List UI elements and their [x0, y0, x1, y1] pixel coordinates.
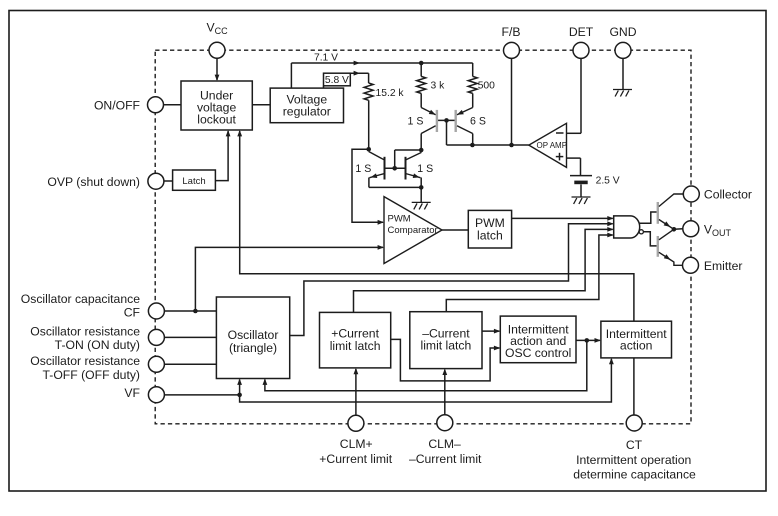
svg-text:+Current limit: +Current limit — [319, 452, 392, 466]
pin Emitter — [683, 257, 699, 273]
wire Q3 emitter down — [368, 178, 370, 188]
wire mirror node to PWM comparator input 1 — [352, 149, 383, 222]
svg-text:OSC control: OSC control — [505, 346, 571, 360]
wire Q1 collector down to NPN mirror — [420, 134, 422, 153]
wire 15.2k bottom down — [368, 100, 370, 151]
node 15.2k / comparator tap — [366, 147, 371, 152]
wire emitter rail to ground — [420, 187, 422, 202]
svg-text:ON/OFF: ON/OFF — [94, 98, 140, 112]
wire Latch to UVLO bottom — [215, 131, 228, 181]
arrow Q4 emitter — [413, 173, 420, 178]
arrow NAND input 3 — [607, 227, 613, 232]
wire +Current limit latch to NAND input 3 — [354, 229, 613, 312]
wire VOUT node to pin — [674, 228, 683, 231]
pin CLM+ — [348, 415, 364, 431]
svg-text:CLM+: CLM+ — [340, 437, 373, 451]
arrow comparator input 2 — [378, 245, 384, 250]
svg-text:T-ON (ON duty): T-ON (ON duty) — [55, 338, 140, 352]
node F/B / rail — [509, 143, 514, 148]
wire NPN base rail — [385, 167, 406, 169]
wire 5.8V to resistor 15.2k top — [368, 73, 370, 83]
svg-text:1 S: 1 S — [355, 163, 371, 175]
arrow Q6 emitter — [664, 254, 671, 259]
arrow Vcc into UVLO — [215, 75, 220, 81]
arrow Q1 emitter — [429, 110, 436, 115]
wire VF node to Intermittent action bottom — [240, 359, 612, 402]
svg-text:7.1 V: 7.1 V — [314, 53, 338, 64]
wire UVLO down across to CT pin — [240, 131, 634, 415]
NAND gate U2 — [614, 216, 640, 238]
transistor Q2 (6 S PNP) — [456, 108, 473, 134]
wire NPN mirror diode connection — [395, 149, 422, 151]
resistor 15.2k — [364, 83, 373, 100]
op-amp PWM Comparator — [384, 197, 442, 264]
node emitter rail / ground — [419, 185, 424, 190]
pin T-OFF — [148, 356, 164, 372]
transistor Q1 (1 S PNP) — [421, 108, 437, 134]
svg-text:VF: VF — [124, 386, 140, 400]
arrow into Intermittent/OSC 1 — [494, 329, 500, 334]
svg-text:GND: GND — [609, 25, 636, 39]
wire VF pin — [164, 394, 239, 396]
ground below 2.5V reference — [572, 197, 591, 204]
wire +Current limit latch to Intermittent/OSC block — [391, 339, 500, 381]
wire Q2 collector down to rail — [472, 134, 474, 146]
block Oscillator (triangle) — [216, 297, 289, 379]
svg-text:500: 500 — [478, 81, 495, 92]
wire 2.5V reference to ground — [580, 184, 582, 197]
wire F/B pin down to rail — [511, 59, 513, 146]
node 7.1V / 3k junction — [419, 61, 424, 66]
transistor Q6 (output lower) — [658, 229, 683, 265]
svg-text:determine capacitance: determine capacitance — [573, 468, 696, 482]
wire Voltage regulator top to 5.8V label — [323, 86, 325, 88]
arrow CLM- into latch — [442, 369, 447, 375]
svg-text:–Current limit: –Current limit — [409, 452, 482, 466]
wire T-OFF pin to oscillator — [164, 363, 216, 365]
svg-text:limit latch: limit latch — [421, 339, 472, 353]
wire CLM+ pin up to latch — [355, 369, 357, 415]
svg-text:Latch: Latch — [182, 176, 205, 187]
svg-text:Oscillator resistance: Oscillator resistance — [30, 354, 140, 368]
svg-text:1 S: 1 S — [417, 163, 433, 175]
wire CF node to PWM comparator input 2 — [195, 247, 383, 311]
pin F/B — [504, 42, 520, 58]
arrow into oscillator bottom 2 — [263, 379, 268, 385]
wire PWM comparator output to PWM latch — [442, 229, 468, 231]
wire Q1 base to Q2 base — [438, 119, 455, 121]
block Under voltage lockout — [181, 81, 252, 130]
svg-text:Intermittent operation: Intermittent operation — [576, 453, 691, 467]
wire OVP pin to Latch — [164, 180, 173, 182]
transistor Q3 (1 S NPN) — [369, 152, 385, 180]
svg-text:Oscillator resistance: Oscillator resistance — [30, 324, 140, 338]
node Q2 collector / rail — [470, 143, 475, 148]
pin GND — [615, 42, 631, 58]
arrow Latch into UVLO — [226, 130, 231, 136]
svg-text:Oscillator: Oscillator — [228, 328, 279, 342]
svg-text:DET: DET — [569, 25, 594, 39]
block -Current limit latch — [410, 312, 482, 369]
wire VF node up to oscillator — [239, 380, 241, 395]
arrow Q2 emitter — [457, 110, 464, 115]
svg-text:OP AMP: OP AMP — [537, 141, 568, 150]
wire ON/OFF pin to UVLO — [164, 104, 182, 106]
wire -Current limit latch to NAND input 4 — [446, 235, 612, 312]
pin CT — [626, 415, 642, 431]
svg-text:VCC: VCC — [207, 20, 229, 36]
svg-text:Oscillator capacitance: Oscillator capacitance — [21, 292, 140, 306]
block PWM latch — [468, 210, 511, 248]
ground GND pin — [613, 90, 632, 97]
block Latch — [173, 170, 216, 190]
svg-text:Collector: Collector — [704, 187, 752, 201]
node VF line — [237, 393, 242, 398]
node intermittent junction — [585, 338, 590, 343]
svg-text:CLM–: CLM– — [428, 437, 461, 451]
svg-text:3 k: 3 k — [431, 81, 446, 92]
pin ON/OFF — [148, 97, 164, 113]
arrow on 5.8V rail — [354, 71, 360, 76]
transistor Q5 (output upper) — [658, 194, 684, 229]
svg-text:CF: CF — [124, 306, 140, 320]
svg-text:6 S: 6 S — [470, 115, 486, 127]
node CF line — [193, 309, 198, 314]
block Intermittent action and OSC control — [500, 316, 576, 363]
block +Current limit latch — [320, 312, 391, 368]
pin Collector — [683, 186, 699, 202]
arrow on 7.1V rail — [354, 61, 360, 66]
arrow comparator input 1 — [378, 220, 384, 225]
svg-text:action: action — [620, 339, 653, 353]
wire 7.1V to resistor 500 top — [472, 63, 474, 76]
arrow NAND input 1 — [607, 216, 613, 221]
pin T-ON — [148, 329, 164, 345]
wire NAND true output to Q5 base — [639, 212, 656, 223]
wire Voltage regulator top to 7.1V rail — [290, 63, 292, 88]
wire PWM latch to NAND input 1 — [512, 217, 613, 219]
wire 7.1V to resistor 3k top — [420, 63, 422, 76]
arrow into Intermittent action — [595, 338, 601, 343]
svg-text:(triangle): (triangle) — [229, 341, 277, 355]
ground below current mirror — [412, 202, 431, 209]
svg-text:2.5 V: 2.5 V — [596, 175, 620, 186]
wire OSC control node to oscillator input — [265, 340, 587, 390]
wire opamp output rail — [447, 144, 529, 146]
op-amp U1 OP AMP — [529, 123, 567, 167]
node PNP base tie — [444, 118, 449, 123]
wire oscillator output to NAND input 2 — [290, 224, 613, 336]
pin VF — [148, 387, 164, 403]
wire to 2.5V reference — [580, 158, 582, 175]
wire 500 bottom to Q2 emitter — [472, 93, 474, 107]
wire emitter rail — [369, 186, 421, 188]
arrow NAND input 2 — [607, 221, 613, 226]
svg-text:1 S: 1 S — [408, 115, 424, 127]
pin DET — [573, 42, 589, 58]
svg-text:15.2 k: 15.2 k — [376, 88, 405, 99]
block Intermittent action — [601, 321, 672, 358]
wire Intermittent/OSC to Intermittent action — [576, 339, 600, 341]
svg-text:CT: CT — [626, 438, 643, 452]
svg-text:T-OFF (OFF duty): T-OFF (OFF duty) — [43, 368, 141, 382]
resistor 500 — [468, 76, 477, 93]
svg-text:VOUT: VOUT — [704, 222, 732, 238]
pin OVP — [148, 173, 164, 189]
node NPN base rail — [392, 166, 397, 171]
svg-text:lockout: lockout — [197, 112, 236, 126]
pin CLM- — [437, 415, 453, 431]
arrow CLM+ into latch — [354, 368, 359, 374]
wire T-ON pin to oscillator — [164, 336, 216, 338]
svg-text:Emitter: Emitter — [704, 259, 743, 273]
resistor 3k — [417, 76, 426, 93]
arrow NAND input 4 — [607, 233, 613, 238]
IC boundary dashed box — [155, 50, 691, 424]
wire -Current limit latch to Intermittent/OSC block — [482, 330, 499, 332]
wire opamp non-inverting input — [567, 157, 581, 159]
arrow into UVLO from logic — [237, 130, 242, 136]
svg-text:5.8 V: 5.8 V — [325, 75, 349, 86]
wire NAND inverted output to Q6 base — [643, 232, 656, 246]
wire DET pin down — [580, 59, 582, 134]
pin CF — [148, 303, 164, 319]
node VOUT — [672, 227, 677, 232]
wire NPN base tie down — [394, 150, 396, 168]
wire GND pin down — [622, 59, 624, 90]
wire DET to opamp inverting input — [567, 132, 582, 134]
svg-text:Comparator: Comparator — [388, 225, 438, 236]
svg-text:F/B: F/B — [502, 25, 521, 39]
svg-text:limit latch: limit latch — [330, 339, 381, 353]
wire CF pin to oscillator — [164, 310, 216, 312]
wire PNP base node down to opamp rail — [446, 120, 448, 145]
node diode connect — [419, 148, 424, 153]
wire UVLO to Voltage regulator — [252, 104, 270, 106]
svg-text:PWM: PWM — [388, 213, 411, 224]
wire CLM- pin up to latch — [444, 370, 446, 415]
pin VOUT — [683, 221, 699, 237]
label 5.8 V boxed — [324, 73, 351, 86]
transistor Q4 (1 S NPN diode-connected) — [406, 153, 422, 180]
wire 5.8V rail — [350, 72, 368, 74]
svg-text:latch: latch — [477, 229, 503, 243]
arrow into Intermittent/OSC 2 — [494, 346, 500, 351]
block Voltage regulator — [270, 88, 343, 123]
svg-text:regulator: regulator — [283, 105, 331, 119]
pin Vcc — [209, 42, 225, 58]
wire Q4 emitter down — [420, 178, 422, 188]
arrow Q5 emitter — [664, 221, 671, 227]
svg-text:OVP (shut down): OVP (shut down) — [47, 175, 140, 189]
2.5V reference — [570, 175, 592, 177]
arrow into oscillator bottom 1 — [237, 379, 242, 385]
wire Vcc pin to UVLO top — [216, 58, 218, 80]
arrow VF into Intermittent action — [609, 358, 614, 364]
wire 7.1V rail — [291, 62, 472, 64]
arrow Q3 emitter — [371, 173, 378, 178]
wire 3k bottom to Q1 emitter — [420, 93, 422, 107]
